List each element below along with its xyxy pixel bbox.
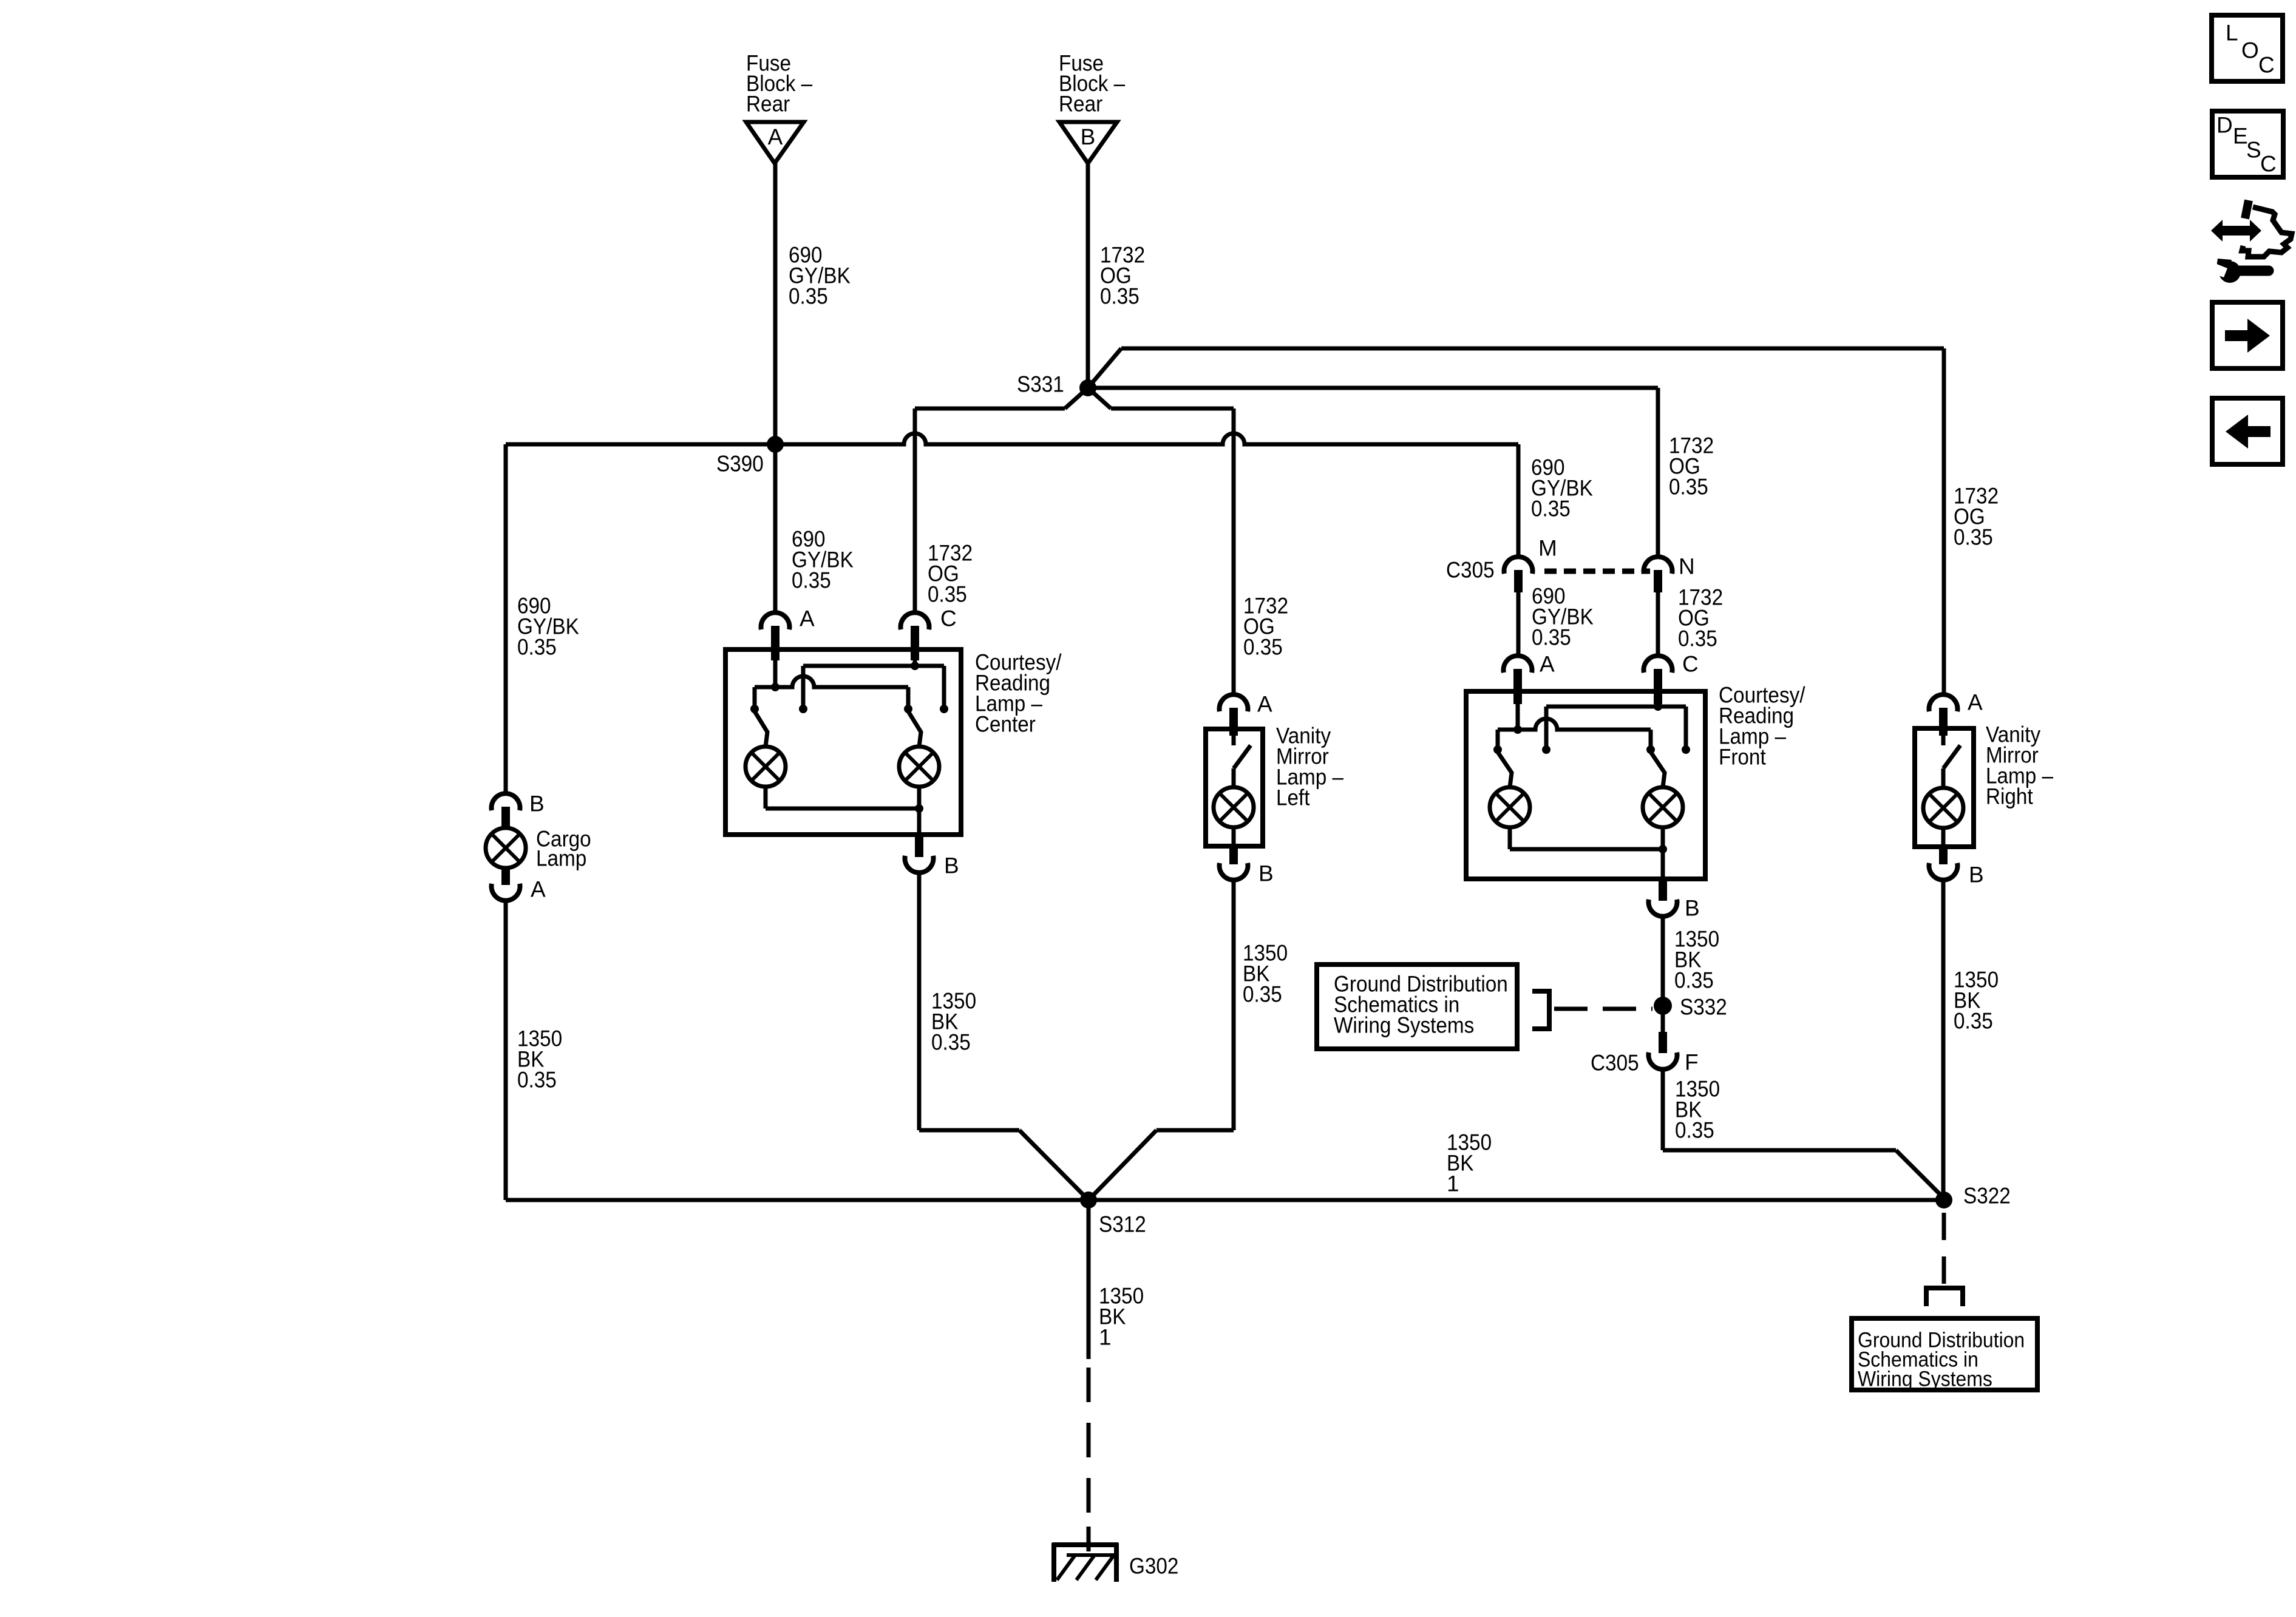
label B (center lamp) bbox=[944, 853, 959, 878]
label C305 (M/N row) bbox=[1446, 558, 1495, 583]
svg-text:Left: Left bbox=[1276, 785, 1310, 810]
label A (center lamp) bbox=[800, 606, 815, 631]
svg-text:1: 1 bbox=[1447, 1171, 1459, 1196]
connector C (front lamp) bbox=[1644, 656, 1673, 704]
label C305 (F) bbox=[1591, 1051, 1639, 1076]
dashed wire bracket to S332 bbox=[1554, 1007, 1652, 1011]
svg-text:F: F bbox=[1685, 1050, 1699, 1075]
svg-text:S332: S332 bbox=[1680, 995, 1727, 1020]
label 1350 BK 0.35 (below F) bbox=[1675, 1077, 1720, 1143]
dashed wire S322 to ground reference bbox=[1942, 1213, 1946, 1286]
label 1350 BK 0.35 (left vanity ground) bbox=[1243, 941, 1288, 1007]
label A (cargo) bbox=[531, 877, 546, 902]
svg-text:0.35: 0.35 bbox=[1954, 525, 1993, 550]
right vanity switch bbox=[1943, 736, 1960, 788]
bracket connector (left ground reference) bbox=[1532, 991, 1549, 1029]
label 690 GY/BK 0.35 (cargo lamp feed) bbox=[517, 594, 579, 660]
svg-text:C305: C305 bbox=[1446, 558, 1495, 583]
svg-text:S322: S322 bbox=[1963, 1184, 2011, 1209]
lamp (right vanity) bbox=[1923, 788, 1963, 828]
icon: LOC box bbox=[2212, 15, 2283, 81]
label 690 GY/BK 0.35 (below M) bbox=[1532, 584, 1594, 650]
label F bbox=[1685, 1050, 1699, 1075]
wire: S390 left branch down to cargo lamp bbox=[504, 444, 508, 795]
lamp 2 (center reading) bbox=[899, 747, 939, 787]
connector B (cargo lamp) bbox=[492, 793, 520, 829]
front lamp bottom rail bbox=[1510, 827, 1667, 881]
svg-text:N: N bbox=[1679, 554, 1695, 579]
ground distribution reference box (left) bbox=[1317, 964, 1517, 1049]
connector B (center lamp) bbox=[905, 837, 934, 873]
connector A (left vanity) bbox=[1220, 694, 1248, 736]
label S390 bbox=[716, 452, 764, 476]
svg-text:C305: C305 bbox=[1591, 1051, 1639, 1076]
svg-text:S390: S390 bbox=[716, 452, 764, 476]
center lamp internal wiring bbox=[755, 660, 944, 709]
icon: back arrow box bbox=[2212, 398, 2283, 464]
label 1732 OG 0.35 (left vanity feed) bbox=[1243, 594, 1288, 660]
junction S331 bbox=[1079, 379, 1096, 396]
connector C305 N bbox=[1644, 557, 1673, 592]
junction S322 bbox=[1935, 1192, 1952, 1209]
lamp 1 (center courtesy) bbox=[746, 747, 786, 787]
svg-text:D: D bbox=[2216, 113, 2233, 138]
wire center lamp B to S312 bbox=[919, 872, 1089, 1200]
label 1732 OG 0.35 (fuse B wire) bbox=[1100, 243, 1145, 309]
label B (right vanity) bbox=[1969, 863, 1984, 887]
label 690 GY/BK 0.35 (fuse A wire) bbox=[789, 243, 851, 309]
label Courtesy/Reading Lamp - Front bbox=[1719, 683, 1805, 770]
connector A (right vanity) bbox=[1929, 694, 1957, 736]
front lamp switch 1 bbox=[1493, 745, 1550, 787]
label 1350 BK 0.35 (cargo ground) bbox=[517, 1026, 562, 1093]
left vanity switch bbox=[1234, 736, 1251, 787]
svg-text:S: S bbox=[2246, 138, 2261, 163]
svg-text:0.35: 0.35 bbox=[1100, 284, 1140, 309]
label 1732 OG 0.35 (center lamp C feed) bbox=[928, 541, 973, 607]
svg-text:0.35: 0.35 bbox=[789, 284, 828, 309]
svg-text:0.35: 0.35 bbox=[517, 635, 557, 660]
svg-text:0.35: 0.35 bbox=[1678, 626, 1717, 651]
wire ground run S312 to S322 bbox=[506, 1198, 1944, 1202]
svg-text:Right: Right bbox=[1986, 784, 2033, 809]
wire: S331 to center lamp connector C feed bbox=[915, 388, 1088, 612]
svg-text:Rear: Rear bbox=[746, 92, 790, 117]
wire S332 to F bbox=[1661, 1006, 1665, 1035]
front lamp switch 2 bbox=[1646, 745, 1690, 787]
svg-text:1: 1 bbox=[1099, 1325, 1112, 1350]
label 1350 BK 1 (ground run) bbox=[1447, 1130, 1492, 1196]
component box: Vanity Mirror Lamp - Left bbox=[1206, 729, 1263, 846]
bracket connector (right ground reference) bbox=[1926, 1288, 1963, 1306]
svg-text:S312: S312 bbox=[1099, 1212, 1146, 1237]
svg-text:B: B bbox=[944, 853, 959, 878]
svg-text:A: A bbox=[1540, 652, 1555, 677]
svg-text:Wiring Systems: Wiring Systems bbox=[1858, 1366, 1992, 1391]
label 1732 OG 0.35 (below N) bbox=[1678, 585, 1723, 651]
svg-text:Center: Center bbox=[975, 712, 1036, 737]
connector B (front lamp) bbox=[1649, 881, 1677, 917]
wire M to front lamp connector A bbox=[1517, 592, 1521, 656]
svg-text:0.35: 0.35 bbox=[928, 582, 967, 607]
junction S312 bbox=[1080, 1192, 1097, 1209]
svg-text:0.35: 0.35 bbox=[517, 1068, 557, 1093]
wire: S331 to left vanity lamp feed bbox=[1088, 388, 1234, 695]
connector A (front lamp) bbox=[1504, 656, 1532, 704]
wire: S390 horizontal 690 GY/BK run with hops, to connector M bbox=[506, 433, 1518, 557]
svg-text:0.35: 0.35 bbox=[1532, 625, 1571, 650]
label Courtesy/Reading Lamp - Center bbox=[975, 650, 1062, 737]
svg-text:B: B bbox=[529, 792, 545, 816]
icon: forward arrow box bbox=[2212, 302, 2283, 368]
wire N to front lamp connector C bbox=[1656, 592, 1660, 656]
front lamp internal wiring bbox=[1498, 702, 1686, 750]
label S331 bbox=[1017, 372, 1064, 397]
svg-text:L: L bbox=[2226, 21, 2238, 46]
svg-text:C: C bbox=[1682, 652, 1699, 677]
wire front lamp B to S332 bbox=[1661, 916, 1665, 1006]
wire: S331 to connector N feed bbox=[1088, 388, 1658, 557]
label 690 GY/BK 0.35 (center lamp A feed) bbox=[792, 527, 854, 593]
svg-text:B: B bbox=[1969, 863, 1984, 887]
connector A (cargo lamp) bbox=[492, 867, 520, 901]
svg-text:A: A bbox=[800, 606, 815, 631]
svg-text:0.35: 0.35 bbox=[1531, 497, 1571, 521]
wire F to S322 bbox=[1663, 1069, 1944, 1198]
svg-text:Lamp: Lamp bbox=[536, 846, 586, 871]
center lamp switch 1 bbox=[750, 705, 807, 747]
svg-text:M: M bbox=[1538, 536, 1557, 561]
dashed connector line C305 M-N bbox=[1544, 569, 1650, 574]
fuse block triangle A bbox=[746, 122, 804, 163]
connector C305 M bbox=[1504, 557, 1533, 592]
svg-text:0.35: 0.35 bbox=[1675, 1118, 1714, 1143]
label S332 bbox=[1680, 995, 1727, 1020]
svg-text:C: C bbox=[940, 606, 957, 631]
junction S332 bbox=[1654, 997, 1672, 1015]
lamp (left vanity) bbox=[1214, 787, 1254, 827]
component box: Vanity Mirror Lamp - Right bbox=[1915, 728, 1974, 847]
connector C305 F bbox=[1649, 1032, 1677, 1070]
label 1732 OG 0.35 (right vanity feed) bbox=[1954, 484, 1999, 550]
label A (left vanity) bbox=[1257, 692, 1272, 717]
component box: Courtesy/Reading Lamp - Center bbox=[725, 649, 961, 835]
label 690 GY/BK 0.35 (above connector M) bbox=[1531, 455, 1593, 521]
component box: Courtesy/Reading Lamp - Front bbox=[1466, 691, 1705, 879]
svg-text:B: B bbox=[1081, 124, 1096, 149]
wire right vanity B to S322 bbox=[1941, 880, 1946, 1200]
svg-text:C: C bbox=[2258, 53, 2275, 78]
label S322 bbox=[1963, 1184, 2011, 1209]
ground G302 bbox=[1052, 1543, 1118, 1582]
label Vanity Mirror Lamp - Right bbox=[1986, 722, 2053, 809]
connector A (center lamp) bbox=[761, 612, 790, 660]
right vanity lamp to connector B bbox=[1929, 828, 1957, 880]
svg-text:S331: S331 bbox=[1017, 372, 1064, 397]
svg-text:0.35: 0.35 bbox=[1243, 982, 1282, 1007]
icon: repair (double arrow, panel outline, wrench) bbox=[2207, 200, 2292, 283]
wire: S331 to right vanity lamp feed (top run) bbox=[1088, 348, 1944, 695]
ground distribution reference box (right) bbox=[1852, 1318, 2037, 1391]
svg-text:Wiring Systems: Wiring Systems bbox=[1334, 1013, 1474, 1038]
connector C (center lamp) bbox=[901, 612, 929, 660]
svg-text:E: E bbox=[2233, 124, 2248, 149]
label Vanity Mirror Lamp - Left bbox=[1276, 724, 1343, 810]
fuse block triangle B bbox=[1059, 122, 1117, 163]
svg-text:A: A bbox=[768, 124, 783, 149]
center lamp switch 2 bbox=[904, 705, 948, 747]
label Cargo Lamp bbox=[536, 827, 591, 871]
label M bbox=[1538, 536, 1557, 561]
label B (front lamp) bbox=[1685, 896, 1700, 921]
svg-text:B: B bbox=[1685, 896, 1700, 921]
svg-text:G302: G302 bbox=[1129, 1554, 1178, 1579]
label S312 bbox=[1099, 1212, 1146, 1237]
junction S390 bbox=[767, 436, 784, 453]
svg-text:A: A bbox=[531, 877, 546, 902]
svg-text:A: A bbox=[1257, 692, 1272, 717]
svg-text:0.35: 0.35 bbox=[1674, 968, 1714, 993]
lamp 1 (front courtesy) bbox=[1490, 787, 1530, 827]
svg-text:O: O bbox=[2241, 38, 2259, 63]
label Fuse Block - Rear (B) bbox=[1059, 51, 1126, 117]
label B (cargo) bbox=[529, 792, 545, 816]
wire: 1732 OG feed from Fuse Block B down to S331 bbox=[1086, 163, 1090, 388]
svg-text:A: A bbox=[1968, 690, 1983, 715]
svg-text:0.35: 0.35 bbox=[931, 1030, 971, 1055]
label G302 bbox=[1129, 1554, 1178, 1579]
svg-text:Rear: Rear bbox=[1059, 92, 1102, 117]
svg-text:Front: Front bbox=[1719, 745, 1766, 770]
label 1350 BK 0.35 (center lamp ground) bbox=[931, 989, 976, 1055]
label A (front lamp) bbox=[1540, 652, 1555, 677]
wire S312 to G302 bbox=[1087, 1200, 1091, 1551]
left vanity lamp to connector B bbox=[1220, 827, 1248, 880]
wire cargo lamp to ground run bbox=[504, 900, 508, 1200]
svg-text:C: C bbox=[2260, 152, 2277, 177]
label N bbox=[1679, 554, 1695, 579]
svg-text:0.35: 0.35 bbox=[1243, 635, 1283, 660]
lamp: Cargo Lamp bbox=[486, 828, 526, 868]
label 1350 BK 1 (S312 ground wire) bbox=[1099, 1284, 1144, 1350]
svg-text:B: B bbox=[1258, 861, 1274, 886]
svg-text:0.35: 0.35 bbox=[1669, 475, 1708, 500]
wire: 690 GY/BK feed from Fuse Block A down through S390 to lamp connector bbox=[773, 163, 778, 612]
icon: DESC box bbox=[2212, 111, 2283, 177]
label C (center lamp) bbox=[940, 606, 957, 631]
label B (left vanity) bbox=[1258, 861, 1274, 886]
lamp 2 (front reading) bbox=[1643, 787, 1683, 827]
label 1732 OG 0.35 (above connector N) bbox=[1669, 433, 1714, 500]
svg-text:0.35: 0.35 bbox=[792, 568, 831, 593]
center lamp bottom rail bbox=[766, 787, 923, 837]
svg-text:0.35: 0.35 bbox=[1954, 1009, 1993, 1034]
label C (front lamp) bbox=[1682, 652, 1699, 677]
wire left vanity B to S312 bbox=[1089, 880, 1234, 1200]
label A (right vanity) bbox=[1968, 690, 1983, 715]
label 1350 BK 0.35 (front lamp ground) bbox=[1674, 927, 1719, 993]
label Fuse Block - Rear (A) bbox=[746, 51, 813, 117]
label 1350 BK 0.35 (right vanity ground) bbox=[1954, 968, 1999, 1034]
